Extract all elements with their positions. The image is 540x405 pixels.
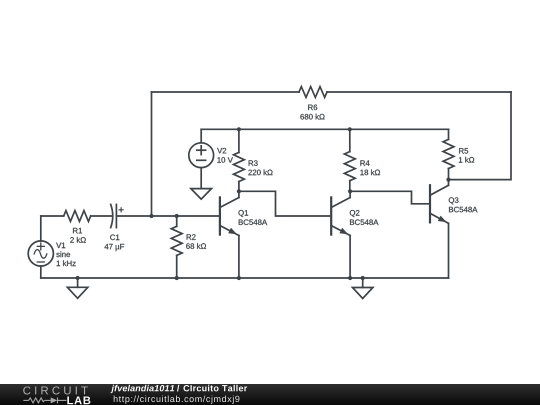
- label 2 k Ohm: [70, 237, 86, 243]
- voltage source V2: [200, 129, 202, 143]
- voltage source V1: [40, 216, 42, 241]
- label V2: [217, 148, 226, 153]
- label R4: [360, 160, 369, 165]
- label 220 k Ohm: [248, 169, 272, 175]
- resistor R3: [238, 129, 240, 152]
- label BC548A: [449, 207, 477, 213]
- node feedback/base junction: [149, 214, 153, 218]
- capacitor C1: [111, 204, 113, 227]
- wire V1 to R1: [41, 215, 64, 217]
- node ground mid junction: [361, 276, 365, 280]
- node R2 top junction: [175, 214, 179, 218]
- resistor R6: [299, 87, 327, 98]
- node Q1 collector junction: [237, 189, 241, 193]
- label 10 V: [217, 157, 232, 163]
- label 18 k Ohm: [360, 169, 380, 175]
- label sine: [56, 251, 70, 257]
- wire top feedback rail right segment: [327, 91, 511, 93]
- resistor R5: [448, 129, 450, 139]
- wire feedback right vertical: [449, 92, 512, 180]
- label R3: [249, 160, 258, 166]
- label Q1: [238, 210, 248, 217]
- label 680 k Ohm: [300, 114, 324, 120]
- label 1 kHz: [57, 260, 76, 266]
- footer separator: [177, 385, 179, 392]
- resistor R4: [349, 129, 351, 151]
- footer url text: [114, 395, 240, 403]
- node V+/R4 junction: [348, 127, 352, 131]
- node Q2 emitter junction: [348, 276, 352, 280]
- ground mid: [362, 278, 364, 288]
- label R6: [308, 105, 317, 111]
- label Q3: [449, 197, 459, 204]
- label BC548A: [239, 219, 267, 225]
- node Q2 collector junction: [348, 189, 352, 193]
- label Q2: [350, 210, 360, 217]
- resistor R2: [176, 216, 178, 226]
- transistor Q2: [330, 197, 332, 234]
- wire Q1 collector to Q2 base: [239, 191, 331, 216]
- node ground left junction: [76, 276, 80, 280]
- label 68 k Ohm: [186, 243, 206, 249]
- wire bottom rail: [41, 277, 449, 279]
- logo wordmark CIRCUIT: [23, 386, 87, 394]
- wire V+ rail: [201, 128, 448, 130]
- node R2 bottom junction: [175, 276, 179, 280]
- ground under V2: [191, 189, 212, 200]
- wire V1 bottom: [40, 266, 42, 278]
- logo resistor-diode glyph: [23, 399, 28, 401]
- label 47 uF: [104, 244, 124, 251]
- wire feedback left vertical: [151, 92, 153, 216]
- label R2: [187, 234, 196, 239]
- wire Q2 collector to Q3 base: [350, 191, 430, 204]
- node Q1 emitter junction: [237, 276, 241, 280]
- wire C1 to base node: [116, 215, 219, 217]
- ground left: [77, 278, 79, 287]
- label BC548A: [350, 219, 378, 225]
- footer circuit title text: [183, 385, 247, 392]
- label 1 k Ohm: [459, 157, 474, 163]
- label R5: [459, 148, 468, 153]
- transistor Q1: [219, 197, 221, 234]
- node V+/R3 junction: [237, 127, 241, 131]
- logo wordmark LAB: [67, 396, 90, 404]
- transistor Q3: [429, 185, 431, 222]
- label C1: [110, 235, 119, 241]
- node R5/Q3 collector junction: [446, 178, 450, 182]
- footer bar: [0, 384, 540, 405]
- footer username text: [111, 385, 175, 393]
- resistor R1: [64, 211, 91, 222]
- wire top feedback rail left segment: [152, 91, 300, 93]
- label V1: [56, 243, 65, 248]
- wire R1 to C1: [91, 215, 112, 217]
- label R1: [73, 228, 82, 233]
